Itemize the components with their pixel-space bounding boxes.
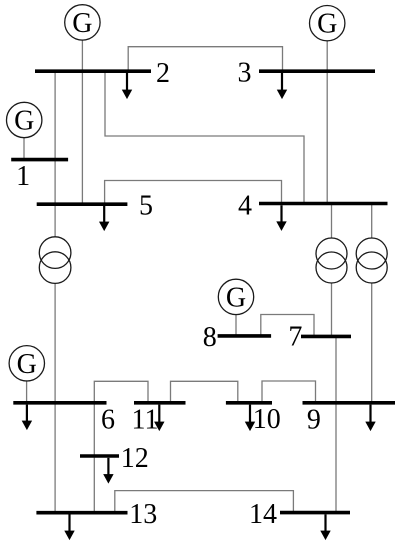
- transformer T5-6 circles: [39, 237, 71, 269]
- svg-text:7: 7: [288, 322, 302, 353]
- wire line 2-4: [105, 71, 304, 203]
- wire bus4 to transformer T4-7: [331, 204, 333, 239]
- svg-text:13: 13: [129, 499, 157, 530]
- load arrow bus 3: [277, 73, 286, 99]
- bus 11 bar: [134, 401, 186, 405]
- bus 3 bar: [259, 69, 375, 73]
- svg-text:14: 14: [249, 499, 277, 530]
- wire bus5 to transformer T5-6: [54, 204, 56, 237]
- bus 13 bar: [36, 511, 127, 515]
- bus 14 bar: [280, 511, 350, 515]
- wire line 6-11: [94, 381, 148, 403]
- generator G2 stem: [81, 39, 83, 71]
- load arrow bus 9: [366, 405, 375, 431]
- svg-text:G: G: [72, 8, 92, 39]
- bus 6 bar: [13, 401, 106, 405]
- generator G8 stem: [235, 314, 237, 336]
- wire transformer T5-6 to bus6: [54, 284, 56, 403]
- svg-text:1: 1: [16, 161, 30, 192]
- bus 1 bar: [11, 158, 68, 162]
- svg-text:5: 5: [139, 191, 153, 222]
- load arrow bus 14: [321, 514, 330, 539]
- load arrow bus 4: [277, 205, 286, 230]
- wire line 9-10: [262, 381, 316, 403]
- wire line 6-13: [54, 403, 56, 513]
- generator G3 circle: [310, 6, 345, 41]
- wire transformer T4-9 to bus9: [371, 283, 373, 403]
- svg-text:12: 12: [121, 443, 149, 474]
- load arrow bus 11: [155, 405, 164, 431]
- wire line 4-5: [105, 181, 282, 205]
- bus 7 bar: [301, 335, 351, 339]
- bus 12 bar: [80, 454, 119, 458]
- bus 10 bar: [226, 401, 272, 405]
- wire line 1-2 / 1-5: [54, 71, 56, 204]
- bus 4 bar: [259, 202, 388, 206]
- svg-text:11: 11: [132, 405, 159, 436]
- bus 5 bar: [37, 202, 128, 206]
- svg-text:10: 10: [253, 404, 281, 435]
- wire line 7-8: [261, 315, 314, 337]
- bus 2 bar: [35, 69, 151, 73]
- load arrow bus 6: [22, 405, 31, 430]
- wire transformer T4-7 to bus7: [331, 283, 333, 336]
- load arrow bus 5: [100, 206, 109, 231]
- bus 9 bar: [303, 401, 396, 405]
- generator G2 circle: [65, 5, 100, 40]
- generator G1 stem: [23, 137, 25, 160]
- svg-text:3: 3: [238, 58, 252, 89]
- load arrow bus 12: [104, 458, 113, 483]
- wire line 2-3: [128, 47, 282, 71]
- wire line 6-12 / 12-13: [93, 403, 95, 513]
- svg-text:G: G: [17, 349, 37, 380]
- svg-text:6: 6: [101, 404, 115, 435]
- svg-text:G: G: [226, 282, 246, 313]
- load arrow bus 10: [245, 405, 254, 431]
- generator G6 circle: [9, 346, 44, 381]
- wire line 10-11: [171, 381, 238, 403]
- svg-text:4: 4: [238, 190, 252, 221]
- wire line 3-4 with generator G3 stem: [326, 40, 328, 203]
- generator G1 circle: [7, 102, 42, 137]
- generator G8 circle: [218, 279, 253, 314]
- wire line 7-9 and 9-14: [335, 336, 337, 512]
- transformer T4-9 circles: [356, 238, 387, 269]
- bus 8 bar: [218, 334, 272, 338]
- svg-text:G: G: [14, 106, 34, 137]
- load arrow bus 2: [122, 73, 131, 99]
- svg-text:G: G: [317, 9, 337, 40]
- transformer T4-7 circles: [316, 238, 347, 269]
- load arrow bus 13: [65, 515, 74, 540]
- generator G6 stem: [26, 380, 28, 403]
- wire bus4 to transformer T4-9: [371, 204, 373, 239]
- svg-text:8: 8: [203, 322, 217, 353]
- svg-text:9: 9: [307, 404, 321, 435]
- svg-text:2: 2: [156, 58, 170, 89]
- wire line 2-5: [81, 71, 83, 204]
- wire line 13-14: [115, 491, 294, 513]
